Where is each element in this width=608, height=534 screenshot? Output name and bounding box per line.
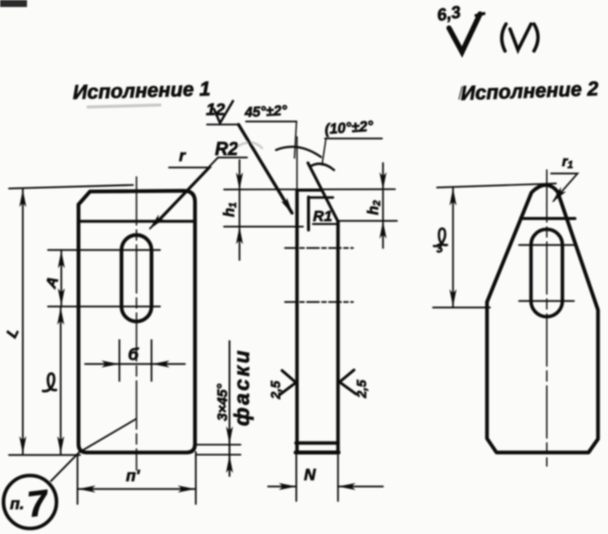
stray tick before title 2 xyxy=(459,87,462,99)
view2 hidden slot line top xyxy=(285,247,353,249)
item circle п.7 xyxy=(4,476,57,529)
svg-text:3×45°: 3×45° xyxy=(214,383,230,421)
angle label 10 xyxy=(322,119,382,165)
leader R2 with shelf xyxy=(146,139,247,232)
roughness (v) mark xyxy=(502,24,538,51)
extension line bevel bottom right xyxy=(338,220,397,222)
svg-text:45°±2°: 45°±2° xyxy=(243,102,287,120)
extension line top left xyxy=(9,185,133,189)
angle label 45 xyxy=(243,102,296,158)
view3 extension top xyxy=(437,184,556,188)
roughness 12 with leader xyxy=(206,100,296,216)
svg-text:R2: R2 xyxy=(215,139,238,159)
dimension L xyxy=(3,189,26,455)
svg-text:б: б xyxy=(128,345,139,364)
view1 centerline xyxy=(136,177,138,470)
view2 left edge extension up xyxy=(296,137,298,190)
dimension b slot width xyxy=(85,340,185,381)
svg-text:п': п' xyxy=(126,468,141,485)
dimension n bottom width xyxy=(78,452,196,504)
dimension h2 right of side view xyxy=(365,163,387,248)
chamfer note dimension xyxy=(196,341,241,476)
extension line bottom left xyxy=(9,454,80,456)
view3 chord line xyxy=(521,217,576,220)
svg-text:R1: R1 xyxy=(313,208,332,225)
view2 side outline left edge xyxy=(295,191,299,453)
extension line slot top center xyxy=(48,249,160,251)
view1 chamfer line xyxy=(79,220,196,223)
view3 centerline xyxy=(546,170,548,466)
svg-text:6,3: 6,3 xyxy=(436,2,463,25)
svg-text:(10°±2°: (10°±2° xyxy=(324,119,374,138)
view2 hidden slot line bottom xyxy=(285,301,353,303)
dimension l3 xyxy=(434,187,457,308)
angle arc 45 xyxy=(276,147,321,157)
svg-text:2,5: 2,5 xyxy=(354,379,369,399)
view3 slot xyxy=(531,229,562,316)
svg-text:N: N xyxy=(304,467,316,484)
smear under title 1 xyxy=(88,105,160,107)
view1 outline xyxy=(79,191,196,453)
dimension h left of side view xyxy=(221,160,243,260)
view2 top edge xyxy=(297,189,321,192)
svg-text:r: r xyxy=(179,148,186,165)
view2 bevel edge xyxy=(308,163,338,222)
svg-text:2,5: 2,5 xyxy=(268,380,283,400)
view2 side outline right edge xyxy=(336,222,340,453)
view3 slot center extension top xyxy=(519,244,574,246)
angle arc 10 xyxy=(311,164,334,170)
dimension A xyxy=(42,250,64,307)
label R1 xyxy=(309,197,338,230)
svg-text:12: 12 xyxy=(206,100,225,119)
dimension l xyxy=(43,307,64,455)
dimension N thickness xyxy=(268,455,383,501)
leader r1 xyxy=(549,153,577,205)
roughness mark right face xyxy=(340,370,370,399)
roughness 6,3 general mark xyxy=(436,2,484,52)
view1 slot xyxy=(122,235,152,321)
view2 bottom edge xyxy=(296,451,339,455)
svg-text:Исполнение 1: Исполнение 1 xyxy=(73,78,211,104)
view3 slot center extension bottom xyxy=(519,300,574,302)
leader from item circle xyxy=(51,419,136,481)
extension line top across gap xyxy=(224,188,395,190)
extension line slot bottom center xyxy=(48,306,160,308)
view2 bottom chamfer line xyxy=(296,441,338,444)
extension line chamfer level gap xyxy=(224,226,303,228)
svg-text:п.: п. xyxy=(10,496,24,513)
svg-text:фаски: фаски xyxy=(231,348,254,426)
leader r with shelf xyxy=(159,148,210,221)
roughness mark left face xyxy=(268,371,296,401)
scan artifact bar top-left xyxy=(0,0,27,7)
view3 extension bottom xyxy=(433,307,490,309)
view3 outline xyxy=(487,185,598,453)
